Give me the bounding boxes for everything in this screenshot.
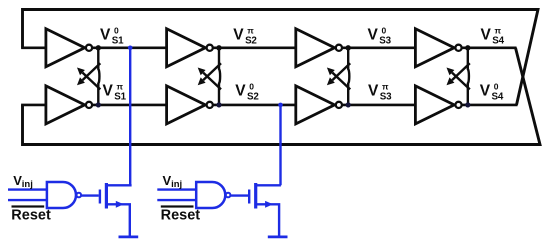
svg-text:S3: S3 bbox=[380, 92, 392, 103]
svg-text:π: π bbox=[382, 81, 389, 91]
transistor M2 source wire bbox=[256, 204, 279, 237]
input wire Reset 1 bbox=[8, 199, 47, 201]
node label VS4-pi bbox=[481, 25, 505, 46]
svg-text:0: 0 bbox=[382, 25, 387, 35]
wire: top feedback rail with left stub and right diagonal to bottom signal bbox=[23, 10, 539, 105]
svg-text:0: 0 bbox=[249, 81, 254, 91]
ground 2 bbox=[268, 235, 288, 238]
svg-text:V: V bbox=[481, 27, 492, 44]
transistor M2 gate bar bbox=[248, 190, 250, 204]
node label VS3-0 bbox=[368, 25, 392, 46]
node label VS1-0 bbox=[100, 25, 124, 46]
NAND U1 output bubble bbox=[77, 193, 82, 198]
node dot bottom stage 2 bbox=[216, 102, 221, 107]
NAND gate U2 bbox=[196, 182, 225, 208]
svg-text:Reset: Reset bbox=[11, 208, 51, 224]
svg-text:0: 0 bbox=[114, 25, 119, 35]
svg-text:π: π bbox=[495, 25, 502, 35]
node dot bottom stage 4 bbox=[465, 102, 470, 107]
transistor M1 source arrow bbox=[116, 201, 124, 208]
node label VS3-pi bbox=[368, 81, 392, 102]
svg-text:S1: S1 bbox=[114, 92, 126, 103]
inverter stage 2 bottom bbox=[167, 86, 213, 124]
transistor M1 channel bar bbox=[105, 183, 108, 209]
node label VS2-pi bbox=[233, 25, 257, 46]
transistor M1 drain wire bbox=[106, 184, 131, 186]
node dot bottom stage 3 bbox=[346, 102, 351, 107]
svg-text:0: 0 bbox=[494, 81, 499, 91]
ground 1 bbox=[119, 235, 139, 238]
svg-text:Reset: Reset bbox=[161, 208, 201, 224]
svg-text:S1: S1 bbox=[112, 35, 124, 46]
transistor M1 gate bar bbox=[99, 190, 101, 204]
NAND gate U1 bbox=[47, 182, 76, 208]
transistor M2 source arrow bbox=[265, 201, 273, 208]
inverter stage 4 bottom bbox=[415, 86, 461, 124]
transistor M1 source wire bbox=[106, 204, 129, 237]
inverter stage 1 bottom bbox=[46, 86, 92, 124]
svg-text:V: V bbox=[368, 83, 379, 100]
inverter stage 3 bottom bbox=[296, 86, 342, 124]
wire NAND U1 output to gate bbox=[81, 194, 99, 196]
label Reset 2 overbar bbox=[161, 205, 194, 207]
node dot top stage 1 bbox=[96, 45, 101, 50]
node label VS1-pi bbox=[103, 81, 127, 102]
svg-text:π: π bbox=[247, 25, 254, 35]
node label VS2-0 bbox=[235, 81, 259, 102]
svg-text:V: V bbox=[103, 83, 114, 100]
wire: bottom signal row bbox=[21, 104, 517, 107]
inverter stage 4 top bbox=[415, 29, 461, 67]
cross-coupling arrows stage 2 bbox=[198, 48, 221, 105]
svg-text:V: V bbox=[235, 83, 246, 100]
input wire Vinj 2 bbox=[157, 188, 196, 190]
wire NAND U2 output to gate bbox=[231, 194, 249, 196]
injection branch 1: blue vertical wire to node VS1-0 bbox=[129, 48, 131, 186]
svg-text:S4: S4 bbox=[492, 35, 504, 46]
svg-text:inj: inj bbox=[22, 179, 33, 190]
injection tap dot on VS1-0 bbox=[128, 46, 133, 51]
cross-coupling arrows stage 1 bbox=[77, 48, 100, 105]
svg-text:inj: inj bbox=[171, 179, 182, 190]
svg-text:S2: S2 bbox=[247, 92, 259, 103]
svg-text:S3: S3 bbox=[379, 35, 391, 46]
label Reset 1 overbar bbox=[12, 205, 45, 207]
transistor M2 channel bar bbox=[254, 183, 257, 209]
wire: top signal row bbox=[21, 46, 516, 49]
svg-text:V: V bbox=[100, 27, 111, 44]
inverter stage 2 top bbox=[167, 29, 213, 67]
node dot top stage 4 bbox=[465, 45, 470, 50]
transistor M2 drain wire bbox=[256, 184, 281, 186]
inverter stage 1 top bbox=[46, 29, 92, 67]
injection tap dot on VS2-0 bbox=[278, 103, 283, 108]
svg-text:π: π bbox=[117, 81, 124, 91]
injection circuit 1 bbox=[8, 173, 138, 237]
svg-text:V: V bbox=[368, 27, 379, 44]
svg-text:S4: S4 bbox=[492, 92, 504, 103]
inverter stage 3 top bbox=[296, 29, 342, 67]
wire: bottom feedback rail with left stub and right diagonal from top signal bbox=[23, 48, 541, 145]
node label VS4-0 bbox=[480, 81, 504, 102]
NAND U2 output bubble bbox=[226, 193, 231, 198]
injection circuit 2 bbox=[157, 173, 287, 237]
node dot top stage 3 bbox=[346, 45, 351, 50]
injection branch 2: blue vertical wire to node VS2-0 bbox=[279, 105, 281, 185]
input wire Reset 2 bbox=[157, 199, 196, 201]
svg-text:S2: S2 bbox=[245, 35, 257, 46]
svg-text:V: V bbox=[480, 83, 491, 100]
cross-coupling arrows stage 3 bbox=[327, 48, 350, 105]
node dot bottom stage 1 bbox=[96, 102, 101, 107]
cross-coupling arrows stage 4 bbox=[447, 48, 470, 105]
node dot top stage 2 bbox=[216, 45, 221, 50]
input wire Vinj 1 bbox=[8, 188, 47, 190]
svg-text:V: V bbox=[233, 27, 244, 44]
